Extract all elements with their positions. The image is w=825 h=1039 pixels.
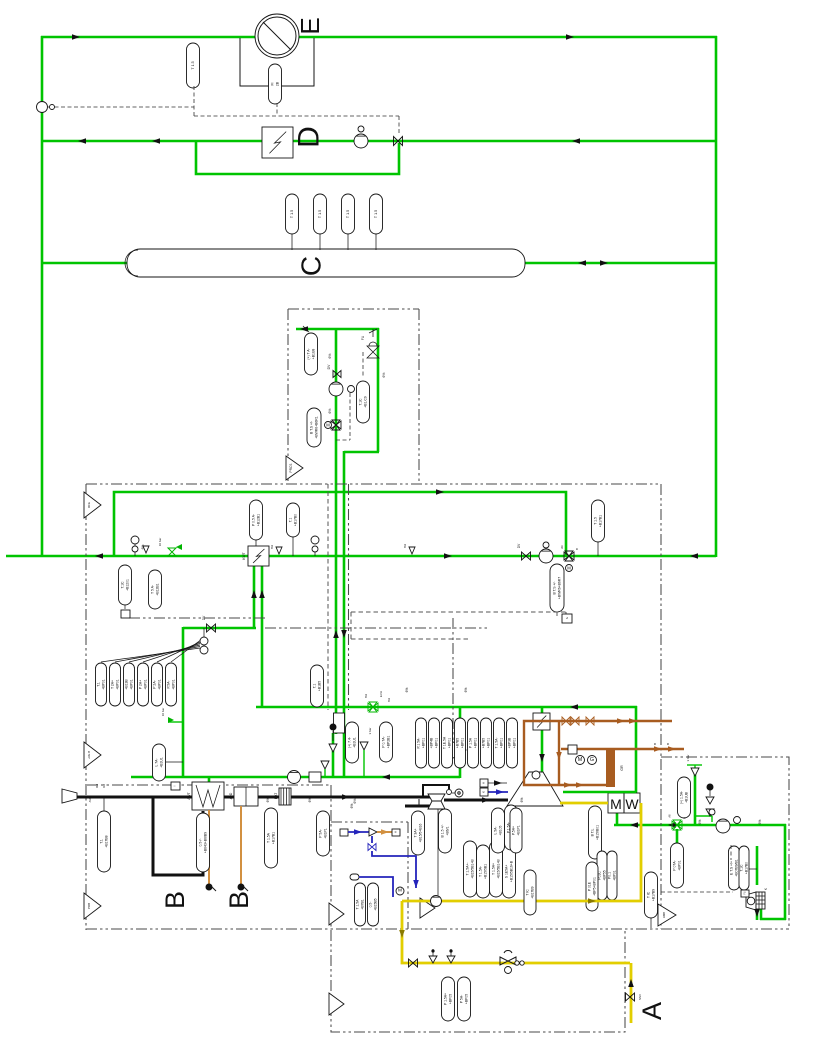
black line after venturi <box>444 799 508 802</box>
svg-text:10 bar: 10 bar <box>161 708 165 717</box>
boundary inner y822 <box>331 821 408 823</box>
signal dashed right box <box>661 845 733 892</box>
svg-text:P 07A-: P 07A- <box>672 860 676 870</box>
valve tri y556 left <box>143 546 149 553</box>
flag left A box <box>329 903 344 925</box>
pipe GT fuel heater drop <box>541 706 544 715</box>
svg-text:+B15/5B16+B: +B15/5B16+B <box>509 860 513 882</box>
signal to box y556 <box>557 612 566 618</box>
boundary plant right x661 <box>660 484 662 929</box>
svg-text:P.5A+: P.5A+ <box>511 826 515 835</box>
svg-text:+B1UB: +B1UB <box>684 791 688 803</box>
arrow right header <box>630 822 638 828</box>
svg-text:P 01E: P 01E <box>587 881 591 891</box>
svg-text:+B643+B6/B9: +B643+B6/B9 <box>203 832 207 853</box>
svg-text:P 2A+: P 2A+ <box>138 680 142 689</box>
svg-text:Rd: Rd <box>95 784 99 788</box>
svg-text:AMB: AMB <box>662 912 666 918</box>
svg-text:W: W <box>625 796 639 812</box>
pipe compressor K top branch <box>756 846 759 885</box>
compressor K <box>746 892 756 910</box>
KAT box hatched <box>279 788 291 805</box>
pill T1.5 vessel 1 <box>291 234 293 250</box>
pill group right of turbine 3 <box>490 841 503 897</box>
green turbine exhaust to MW <box>563 791 636 794</box>
svg-text:PRB: PRB <box>87 903 91 909</box>
svg-text:B: B <box>224 891 254 909</box>
dashed box mid <box>351 612 566 639</box>
svg-text:P 1.5A+: P 1.5A+ <box>443 993 447 1005</box>
pipe KWT outlet pair left <box>253 565 256 628</box>
svg-text:6%: 6% <box>353 799 357 804</box>
duct lower line <box>405 805 430 808</box>
svg-text:T 2A+: T 2A+ <box>110 680 114 689</box>
svg-text:+BP55: +BP55 <box>602 870 606 880</box>
brown check valve 1 <box>562 717 570 725</box>
svg-text:6%: 6% <box>387 698 391 703</box>
pill right pair 1 <box>729 846 740 890</box>
svg-text:+BP01: +BP01 <box>143 679 147 689</box>
pill TIC B17B9 mid <box>524 870 536 915</box>
brown valve 2 <box>571 717 579 725</box>
boundary bottom A box <box>331 930 625 1032</box>
pump flow circle upper <box>329 382 343 396</box>
blue line 1 <box>348 831 369 833</box>
flag PRCS <box>286 456 303 480</box>
svg-text:T 1.5: T 1.5 <box>290 210 294 218</box>
svg-text:+B1P1: +B1P1 <box>516 825 520 835</box>
pill right 15A B1UB <box>678 777 691 818</box>
svg-text:+B15/B01: +B15/B01 <box>595 825 599 840</box>
valve X on header y141 <box>394 137 403 146</box>
boundary corridor right dashdot <box>348 484 350 710</box>
svg-text:+B17B0: +B17B0 <box>293 514 297 526</box>
svg-text:H: H <box>394 831 398 833</box>
pipe MW outlet down <box>616 812 619 826</box>
pill T15 B17B1 <box>597 542 599 556</box>
pipe 10bar stub <box>168 721 183 723</box>
pill turbine row 5 <box>468 718 479 768</box>
svg-text:M: M <box>398 888 402 894</box>
svg-text:T.1: T.1 <box>288 518 292 523</box>
svg-text:+B15/5B1: +B15/5B1 <box>483 864 487 879</box>
svg-text:+BP01: +BP01 <box>460 738 464 748</box>
signal dashed upper box <box>336 352 363 440</box>
pill L7A B1U1 <box>153 744 166 781</box>
svg-text:6%: 6% <box>328 409 332 414</box>
svg-text:6%: 6% <box>308 798 312 803</box>
arrow collector <box>382 774 390 780</box>
brown thick bar GR <box>606 750 615 787</box>
fan line 2 <box>115 647 200 663</box>
AWT box <box>192 782 224 810</box>
boundary right box <box>661 757 789 928</box>
boundary inner x331 <box>330 785 332 929</box>
arrow yellow header <box>588 898 596 904</box>
boundary short vertical x453 <box>452 618 454 740</box>
pill turbine row 1 <box>416 718 427 768</box>
vessel C body <box>127 249 525 277</box>
boundary inner x408 <box>407 822 409 929</box>
svg-text:+B6/1: +B6/1 <box>445 826 449 835</box>
svg-text:T 1.5A: T 1.5A <box>355 899 359 910</box>
pipe low header y707 <box>256 706 637 709</box>
brown left drop <box>524 721 608 785</box>
pill group right of turbine 4 <box>503 845 516 898</box>
valve tri right of KWT <box>276 547 282 554</box>
motor circle below cross <box>673 843 681 851</box>
pill T1 B17B8 <box>103 797 105 811</box>
svg-text:PRCS: PRCS <box>289 464 293 473</box>
pump y777 <box>288 771 301 784</box>
svg-text:P.5A-: P.5A- <box>166 680 170 688</box>
fan line 3 <box>129 645 200 662</box>
pipe relief branch x695 <box>694 768 697 826</box>
svg-text:6%: 6% <box>464 688 468 693</box>
instrument circles y645 <box>200 637 208 645</box>
fan line 5 <box>157 642 200 662</box>
pipe small branch x677 to motor <box>676 829 679 844</box>
svg-text:KAT: KAT <box>274 793 278 799</box>
svg-text:6%: 6% <box>328 354 332 359</box>
safety ball corridor <box>330 724 337 731</box>
valve DV y628 <box>207 624 216 632</box>
flag AMB AIR <box>658 904 676 926</box>
pipe right loop bottom y919 <box>760 918 786 921</box>
pill BTS BWR6 y556 <box>550 564 564 612</box>
pipe relief sub horizontal <box>695 815 712 817</box>
svg-text:+B17B0: +B17B0 <box>744 862 748 874</box>
svg-text:SSV: SSV <box>638 994 642 1000</box>
pill lower-left 5 <box>152 663 163 706</box>
brown mid drop <box>558 721 560 785</box>
svg-text:T 1.5A: T 1.5A <box>266 832 270 843</box>
svg-text:+BP3B: +BP3B <box>507 737 511 748</box>
yellow line turbine to MW <box>560 802 608 805</box>
pill PO1C double 2 <box>607 851 617 900</box>
svg-text:+B15B5: +B15B5 <box>373 898 377 910</box>
pill T1C B1201 <box>119 565 132 605</box>
svg-text:+BP01: +BP01 <box>612 870 616 880</box>
arrow top header <box>72 34 80 40</box>
brown valve pair 2 <box>586 717 594 725</box>
svg-text:+B17B1: +B17B1 <box>271 832 275 844</box>
svg-text:10 bar: 10 bar <box>158 538 162 547</box>
svg-text:+RE B: +RE B <box>87 751 91 759</box>
arrow vessel feed <box>152 260 160 266</box>
valve SSV yellow <box>626 993 635 1001</box>
svg-text:M: M <box>567 566 571 571</box>
svg-text:+B7B1: +B7B1 <box>360 899 364 909</box>
svg-text:+B1U1: +B1U1 <box>159 757 163 768</box>
blue source box 2 <box>350 874 359 880</box>
flag RFE <box>84 492 101 518</box>
svg-text:+BP01: +BP01 <box>499 738 503 748</box>
pill lower-left 1 <box>96 663 107 706</box>
svg-text:+BP4B: +BP4B <box>429 737 433 748</box>
instrument circles x315 <box>311 536 319 544</box>
svg-text:P0.1: P0.1 <box>607 872 611 879</box>
pipe corridor pair to collector <box>332 733 335 778</box>
pipe relief header bar <box>687 764 702 766</box>
yellow final drop <box>630 963 633 1023</box>
pill T1 B17B0 <box>292 536 294 556</box>
svg-text:6%: 6% <box>698 820 702 825</box>
svg-text:M: M <box>578 757 583 763</box>
orange drain A0D <box>240 806 242 884</box>
blue source box <box>340 829 348 836</box>
svg-text:B: B <box>160 891 190 909</box>
svg-text:+B17B9: +B17B9 <box>530 886 534 898</box>
svg-text:+B17B8: +B17B8 <box>104 835 108 847</box>
safety ball right <box>707 784 714 791</box>
arrow brown top <box>617 718 625 724</box>
svg-text:+BP01: +BP01 <box>115 679 119 689</box>
svg-text:P 5A-: P 5A- <box>318 829 322 837</box>
svg-text:6%: 6% <box>270 545 274 550</box>
boundary signal y618 <box>129 617 265 619</box>
svg-text:FI: FI <box>270 82 274 85</box>
flag left A box 2 <box>329 993 344 1015</box>
pump yellow <box>431 896 442 907</box>
pill group right of turbine 1 <box>464 841 477 897</box>
pipe compressor K suction <box>760 907 763 920</box>
svg-text:+B12B1: +B12B1 <box>155 583 159 595</box>
pump on header y141 <box>354 134 368 148</box>
pill corridor T B1B5 <box>311 665 324 707</box>
svg-text:+B07B9/B1: +B07B9/B1 <box>734 859 738 876</box>
pill yellow box 1 <box>442 977 455 1021</box>
arrow header y492 <box>436 489 444 495</box>
arrow low header <box>570 704 578 710</box>
svg-text:P 0.7A-: P 0.7A- <box>381 736 385 747</box>
svg-text:A6: A6 <box>668 814 672 818</box>
svg-text:+B17B1: +B17B1 <box>598 515 602 527</box>
svg-text:+B1P1: +B1P1 <box>323 828 327 838</box>
fan line 1 <box>101 648 200 662</box>
svg-text:+B105: +B105 <box>498 825 502 835</box>
control valve FU upper <box>367 346 379 358</box>
instrument pill T1.5 top <box>187 43 200 88</box>
svg-text:T IC: T IC <box>646 891 650 898</box>
svg-text:+BP01: +BP01 <box>512 738 516 748</box>
pill 74 B1U1 <box>346 722 359 763</box>
svg-text:6%: 6% <box>403 544 407 549</box>
flag W5 <box>420 898 435 918</box>
svg-text:B: B <box>653 743 657 745</box>
valve DV upper <box>333 371 341 378</box>
boundary plant left <box>85 484 87 930</box>
svg-text:(+) 7.4-: (+) 7.4- <box>347 737 351 748</box>
svg-text:+B13B: +B13B <box>124 679 128 690</box>
svg-text:+B7B5: +B7B5 <box>455 738 459 748</box>
pill turbine row 7 <box>494 718 505 768</box>
svg-text:+BP01: +BP01 <box>129 679 133 689</box>
svg-text:6%: 6% <box>758 820 762 825</box>
component box y777 <box>309 772 321 782</box>
pipe corridor green pair left <box>296 328 379 331</box>
svg-text:T.1C: T.1C <box>120 581 124 589</box>
boundary plant box top <box>86 483 661 485</box>
arrow corridor pair <box>333 630 339 638</box>
relief valve corridor <box>329 744 337 752</box>
arrow vessel outlet <box>578 260 586 266</box>
svg-text:T 1.5: T 1.5 <box>346 210 350 218</box>
turbine inlet lines <box>488 782 507 784</box>
drain symbol A0D <box>238 884 245 891</box>
svg-text:+B1U1: +B1U1 <box>352 737 356 748</box>
pill P05A B12B1 <box>255 538 257 546</box>
svg-text:S 1E5A+: S 1E5A+ <box>504 865 508 878</box>
pill lower-left 6 <box>166 663 177 706</box>
pipe corridor jog y452 <box>344 451 379 454</box>
svg-text:B T.S +/-: B T.S +/- <box>309 421 313 434</box>
component H on brown <box>568 745 577 754</box>
marker inlet arrows upper box <box>300 326 308 332</box>
svg-text:6%: 6% <box>382 373 386 378</box>
svg-text:Kd: Kd <box>102 784 106 788</box>
pill T1C B1C9 <box>357 381 370 423</box>
svg-text:0.5-: 0.5- <box>368 902 372 908</box>
pill T1.5 vessel 2 <box>319 234 321 250</box>
motor circle blue <box>396 887 404 895</box>
pump P top left <box>37 102 48 113</box>
blue line 2 <box>359 877 393 897</box>
pipe header y492 <box>114 492 566 556</box>
svg-text:C: C <box>296 256 327 276</box>
thin line venturi to pump <box>437 809 439 895</box>
pill B15 below venturi <box>439 809 452 853</box>
black U drain line <box>153 797 203 875</box>
black main air line <box>77 796 430 799</box>
svg-text:B 1.5 +/-: B 1.5 +/- <box>440 825 444 838</box>
svg-text:+BWR6+B6R1: +BWR6+B6R1 <box>314 416 318 438</box>
pipe drop x460 <box>459 706 462 778</box>
svg-text:3 bar: 3 bar <box>368 728 372 735</box>
svg-text:A%: A% <box>88 797 92 802</box>
check valve blue <box>369 828 377 836</box>
svg-text:+BP05: +BP05 <box>448 994 452 1004</box>
svg-text:L 7A-: L 7A- <box>154 759 158 767</box>
svg-text:6%: 6% <box>364 694 368 699</box>
svg-text:T 1.5: T 1.5 <box>374 210 378 218</box>
svg-text:0.5-/-: 0.5-/- <box>198 839 202 847</box>
svg-text:T IC: T IC <box>525 889 529 896</box>
valve EVH green cross <box>368 702 378 712</box>
svg-text:+BP01: +BP01 <box>157 679 161 689</box>
pill yellow box 2 <box>458 977 471 1021</box>
svg-text:EVH: EVH <box>379 691 383 697</box>
boundary corridor dashed left <box>327 484 329 710</box>
svg-text:2B: 2B <box>275 81 279 86</box>
valve angle x325 <box>321 761 329 769</box>
svg-text:T.1: T.1 <box>96 682 100 687</box>
svg-text:T 1.5A-: T 1.5A- <box>478 866 482 877</box>
svg-text:+BP01: +BP01 <box>421 738 425 748</box>
svg-text:P 5A-: P 5A- <box>459 995 463 1003</box>
pipe right loop down x785 <box>784 824 787 920</box>
svg-text:+BP01: +BP01 <box>447 738 451 748</box>
fan E circle <box>255 14 299 58</box>
svg-text:FU: FU <box>744 891 747 894</box>
svg-text:H: H <box>482 782 486 784</box>
svg-text:+BP01: +BP01 <box>677 860 681 870</box>
pill near yellow 05 <box>368 883 379 926</box>
pipe right return vertical <box>715 36 718 557</box>
pipe main supply left vertical <box>41 36 44 557</box>
svg-text:+BP05: +BP05 <box>464 994 468 1004</box>
blue drop to pump <box>372 851 416 888</box>
pipe corridor right branch x378 <box>377 328 380 452</box>
pill L5A 2 <box>505 805 518 850</box>
svg-text:+B15/5+B16: +B15/5+B16 <box>418 823 422 842</box>
blue branch down <box>371 836 373 843</box>
A0D box <box>234 787 258 806</box>
svg-text:T.1: T.1 <box>312 684 316 689</box>
pill right pair 2 <box>739 846 749 890</box>
pill T1.5 vessel 3 <box>347 234 349 250</box>
svg-text:+B1U8: +B1U8 <box>311 349 315 360</box>
svg-text:P 2A-: P 2A- <box>152 680 156 688</box>
pill T3A below venturi <box>412 811 425 855</box>
pipe top header horizontal <box>41 36 717 39</box>
svg-text:A: A <box>637 1002 667 1020</box>
svg-text:T 3A+: T 3A+ <box>413 828 417 837</box>
pill lower-left 2 <box>110 663 121 706</box>
svg-text:+BP01: +BP01 <box>171 679 175 689</box>
svg-text:DV: DV <box>327 364 331 369</box>
valve tri x412 <box>409 547 415 554</box>
air intake funnel <box>62 789 77 803</box>
pill P07A BP01 right <box>671 843 684 888</box>
instrument pill FI2B <box>269 64 282 104</box>
pills top right of black line <box>510 808 522 853</box>
svg-text:+BP2B1: +BP2B1 <box>386 736 390 749</box>
svg-text:+B1B5: +B1B5 <box>317 681 321 691</box>
black bypass loop venturi <box>423 785 449 798</box>
svg-text:T 1.5: T 1.5 <box>318 210 322 218</box>
svg-text:(+) T A-: (+) T A- <box>306 348 310 359</box>
boundary inner y785 <box>87 784 331 786</box>
svg-text:FU: FU <box>361 335 365 340</box>
pipe right header y825 <box>614 824 786 827</box>
pipe riser x182 <box>182 627 185 778</box>
arrow brown mid <box>556 752 562 760</box>
pill P07A BP2B1 <box>380 722 393 762</box>
valve yellow angle 1 <box>429 956 437 963</box>
svg-text:T 1.5A+-: T 1.5A+- <box>465 862 469 875</box>
pipe long header y556 <box>6 555 716 558</box>
svg-text:KWT: KWT <box>242 552 246 560</box>
arrow second header <box>78 138 86 144</box>
pipe DV branch y628 <box>183 627 256 630</box>
svg-text:AWT: AWT <box>187 792 191 799</box>
svg-text:+BP01: +BP01 <box>434 738 438 748</box>
svg-text:B: B <box>683 817 687 819</box>
svg-text:T.1C: T.1C <box>739 864 743 872</box>
svg-text:DV: DV <box>202 615 206 620</box>
blue valve bowtie <box>368 844 376 851</box>
svg-text:L 5A-: L 5A- <box>493 827 497 835</box>
svg-text:B: B <box>666 743 670 745</box>
arrow yellow mid <box>399 930 405 938</box>
arrow brown y785 <box>564 782 572 788</box>
pill lower-left 4 <box>138 663 149 706</box>
valve yellow bowtie y963 <box>409 959 418 967</box>
cross valve upper <box>331 420 341 430</box>
pipe vessel C feed left <box>41 262 128 265</box>
pill lower-left 3 <box>124 663 135 706</box>
